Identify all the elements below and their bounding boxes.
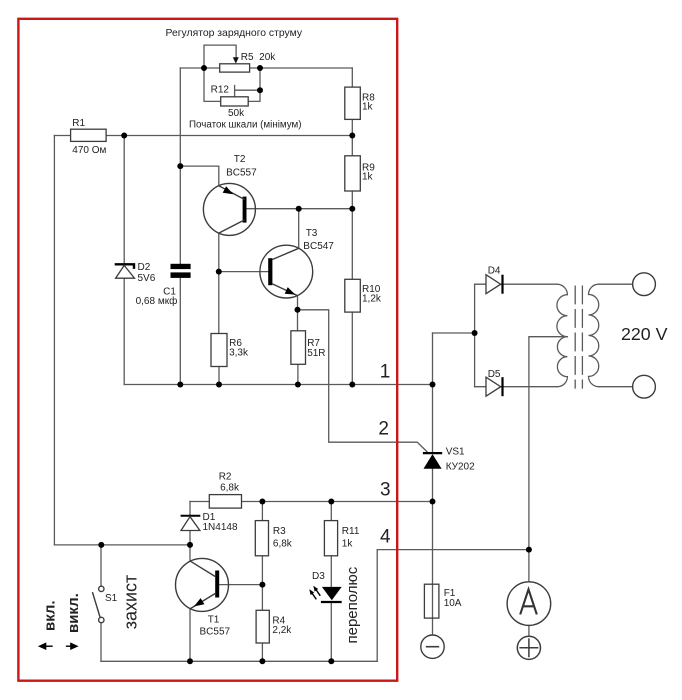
wire D4 D5 left vertical x=474.6 bbox=[474, 284, 476, 387]
wire R10 top lead bbox=[351, 209, 353, 280]
junction R6 to rail 1 bbox=[216, 382, 222, 388]
junction R11 to rail 3 bbox=[328, 499, 334, 505]
minus terminal bbox=[421, 635, 444, 658]
wire R12 right end up to rail bbox=[248, 68, 260, 101]
wire secondary bottom to terminal bbox=[599, 386, 633, 388]
wire S1 bottom lead bbox=[100, 623, 102, 662]
resistor R7 bbox=[291, 331, 306, 365]
junction R12 wiper node bbox=[257, 87, 263, 93]
resistor R10 bbox=[345, 279, 361, 312]
svg-text:50k: 50k bbox=[228, 108, 245, 119]
wire top rail y=68 bbox=[180, 67, 352, 69]
svg-text:51R: 51R bbox=[307, 348, 325, 359]
svg-text:BC557: BC557 bbox=[226, 167, 257, 178]
junction R3 to rail 3 bbox=[259, 499, 265, 505]
svg-text:вкл.: вкл. bbox=[41, 600, 58, 631]
plus terminal bbox=[517, 636, 540, 659]
svg-text:R2: R2 bbox=[219, 472, 232, 483]
svg-text:1k: 1k bbox=[362, 171, 374, 182]
svg-text:T1: T1 bbox=[208, 615, 220, 626]
junction rail 1 to VS1 line bbox=[430, 382, 436, 388]
wire node2 branch from T3 emitter bbox=[298, 310, 428, 452]
wire D2 branch vertical x=124.2 bbox=[123, 136, 125, 264]
wire ammeter to plus terminal bbox=[528, 625, 530, 636]
transistor T1 bbox=[176, 558, 229, 611]
wire T1 collector down to rail bbox=[189, 609, 191, 662]
resistor R1 bbox=[71, 129, 107, 141]
svg-text:D2: D2 bbox=[138, 262, 151, 273]
junction R9 R10 node bbox=[349, 206, 355, 212]
junction T2 collector T3 base bbox=[216, 269, 222, 275]
svg-text:1k: 1k bbox=[362, 102, 374, 113]
junction rail 3 to VS1 line bbox=[430, 499, 436, 505]
svg-text:3: 3 bbox=[380, 480, 391, 501]
wire T2 base to R9 node bbox=[247, 208, 353, 210]
svg-text:R11: R11 bbox=[342, 526, 360, 537]
svg-text:2,2k: 2,2k bbox=[272, 625, 292, 636]
wire D3 cathode to rail bbox=[330, 603, 332, 662]
diode D5 bbox=[486, 377, 503, 396]
junction C1 to rail 1 bbox=[177, 382, 183, 388]
junction R1 to D2 branch bbox=[121, 133, 127, 139]
wire x=204 vertical to R12 bbox=[204, 68, 221, 101]
diode D1 bbox=[181, 516, 201, 531]
wire T3 base from node bbox=[219, 271, 268, 273]
wire T2 collector down to R6 bbox=[218, 233, 220, 333]
svg-text:D5: D5 bbox=[488, 369, 501, 380]
wire D1 anode down to T1 bbox=[189, 531, 191, 562]
wire R7 bottom lead bbox=[297, 364, 299, 384]
arrow vkl left bbox=[38, 642, 53, 650]
wire left vertical x=54.4 bbox=[53, 136, 55, 545]
wire R11 top lead bbox=[330, 502, 332, 521]
svg-text:4: 4 bbox=[380, 527, 391, 548]
wire mid horizontal y=544.9 bbox=[54, 544, 190, 546]
wire T2 emitter branch bbox=[180, 166, 219, 186]
junction R7 to rail 1 bbox=[295, 382, 301, 388]
junction T1 base R3 R4 bbox=[259, 582, 265, 588]
wire R10 bottom lead bbox=[351, 312, 353, 384]
wire rail 1 y=384.5 bbox=[124, 384, 432, 386]
wire secondary top to terminal bbox=[599, 283, 633, 285]
junction R5 left node bbox=[201, 65, 207, 71]
capacitor C1 bbox=[171, 264, 191, 278]
diode D4 bbox=[486, 275, 503, 294]
resistor R6 bbox=[211, 334, 227, 367]
junction D4 D5 anodes bbox=[472, 330, 478, 336]
svg-text:470 Ом: 470 Ом bbox=[72, 145, 106, 156]
terminal circle 220V bottom bbox=[633, 375, 656, 398]
svg-text:1: 1 bbox=[380, 361, 391, 382]
junction T3 emitter node bbox=[295, 307, 301, 313]
junction D1 anode node bbox=[187, 542, 193, 548]
transformer core dashed lines bbox=[574, 286, 576, 388]
svg-text:2: 2 bbox=[378, 418, 389, 439]
svg-text:переполюс: переполюс bbox=[344, 566, 361, 643]
junction S1 branch bbox=[98, 542, 104, 548]
svg-text:6,8k: 6,8k bbox=[220, 482, 240, 493]
svg-text:D3: D3 bbox=[312, 571, 325, 582]
wire T3 collector up bbox=[298, 209, 300, 249]
svg-text:6,8k: 6,8k bbox=[273, 538, 293, 549]
junction rail 4 to ammeter line bbox=[526, 547, 532, 553]
junction C1 branch to T2 emitter bbox=[177, 163, 183, 169]
svg-text:VS1: VS1 bbox=[446, 446, 465, 457]
transistor T3 bbox=[260, 245, 313, 298]
wire T3 emitter down bbox=[297, 296, 299, 331]
resistor R3 bbox=[255, 521, 268, 556]
resistor R8 bbox=[345, 87, 361, 119]
svg-text:R5 20k: R5 20k bbox=[241, 52, 276, 63]
terminal circle 220V top bbox=[633, 273, 656, 296]
transformer secondary winding bbox=[589, 284, 599, 387]
transformer primary winding bbox=[557, 284, 568, 387]
svg-text:R3: R3 bbox=[273, 526, 286, 537]
junction R4 to bottom rail bbox=[259, 658, 265, 664]
wire R5 bypass loop bbox=[204, 45, 236, 68]
svg-text:R1: R1 bbox=[72, 118, 85, 129]
thyristor VS1 bbox=[423, 453, 442, 469]
wire D4 D5 junction horizontal bbox=[433, 332, 475, 334]
svg-text:T2: T2 bbox=[234, 154, 246, 165]
wire C1 bottom to rail1 bbox=[179, 278, 181, 385]
junction T1 collector to bottom rail bbox=[187, 658, 193, 664]
wire D4 horizontal y=284.2 bbox=[475, 283, 557, 285]
svg-text:викл.: викл. bbox=[65, 593, 82, 633]
wire R3 top lead bbox=[261, 502, 263, 521]
wire R8 top lead bbox=[351, 68, 353, 87]
fuse F1 bbox=[424, 584, 439, 618]
wire D2 anode down to rail1 bbox=[123, 278, 125, 384]
svg-text:1k: 1k bbox=[342, 538, 354, 549]
svg-text:BC557: BC557 bbox=[200, 626, 231, 637]
wire transformer center tap bbox=[529, 337, 568, 582]
svg-text:5V6: 5V6 bbox=[138, 273, 156, 284]
svg-text:КУ202: КУ202 bbox=[446, 461, 475, 472]
junction R10 to rail 1 bbox=[349, 382, 355, 388]
wire VS1 vertical upper bbox=[432, 333, 434, 452]
svg-text:R12: R12 bbox=[211, 85, 230, 96]
junction D3 to bottom rail bbox=[328, 658, 334, 664]
svg-text:10A: 10A bbox=[444, 598, 462, 609]
wire bottom rail y=661.3 bbox=[101, 660, 377, 662]
zener diode D2 bbox=[115, 264, 135, 278]
svg-text:T3: T3 bbox=[306, 228, 318, 239]
wire R9 bottom lead bbox=[351, 191, 353, 209]
wire R1 rail y=135.5 bbox=[54, 135, 352, 137]
wire D5 horizontal y=386.7 bbox=[475, 386, 558, 388]
svg-text:220 V: 220 V bbox=[621, 324, 668, 344]
transistor T2 bbox=[203, 183, 255, 235]
potentiometer R5 bbox=[220, 64, 250, 72]
wire R4 bottom lead bbox=[261, 643, 263, 661]
resistor R4 bbox=[256, 610, 269, 643]
resistor R11 bbox=[324, 521, 337, 556]
resistor R9 bbox=[345, 156, 361, 191]
wire T1 base to R3 R4 node bbox=[219, 584, 262, 586]
svg-text:Регулятор зарядного струму: Регулятор зарядного струму bbox=[166, 28, 303, 39]
junction T2 base T3 collector bbox=[296, 206, 302, 212]
wire D1 top lead bbox=[189, 502, 191, 516]
switch S1 bbox=[92, 586, 104, 623]
wire R11 bottom to D3 bbox=[330, 556, 332, 587]
ammeter A bbox=[507, 582, 551, 626]
svg-text:S1: S1 bbox=[105, 593, 118, 604]
svg-text:1N4148: 1N4148 bbox=[203, 522, 238, 533]
wire S1 top lead bbox=[100, 545, 102, 586]
wire C1 branch vertical x=180.3 bbox=[179, 68, 181, 264]
potentiometer R12 bbox=[221, 97, 249, 106]
wire VS1 anode down to fuse and minus terminal bbox=[432, 469, 434, 635]
arrow vykl right bbox=[66, 642, 79, 650]
wire rail 4 y=549.6 bbox=[377, 550, 529, 662]
wire R3 to R4 bbox=[261, 556, 263, 611]
junction R8 R9 node bbox=[349, 133, 355, 139]
svg-text:3,3k: 3,3k bbox=[229, 347, 249, 358]
junction R5 right node bbox=[257, 65, 263, 71]
wire R6 bottom lead bbox=[218, 367, 220, 385]
svg-text:D4: D4 bbox=[488, 265, 501, 276]
resistor R2 bbox=[209, 495, 241, 509]
wire rail 3 y=501.5 bbox=[190, 501, 433, 503]
potentiometer R5 wiper arrow bbox=[233, 57, 239, 63]
svg-text:захист: захист bbox=[121, 575, 141, 630]
wire R9 top lead bbox=[351, 136, 353, 156]
wire R12 wiper tap bbox=[235, 86, 260, 97]
wire R8 bottom lead bbox=[351, 119, 353, 135]
svg-text:Початок шкали (мінімум): Початок шкали (мінімум) bbox=[189, 120, 302, 131]
LED D3 bbox=[309, 586, 341, 602]
red border frame bbox=[18, 19, 397, 681]
svg-text:1,2k: 1,2k bbox=[362, 294, 382, 305]
svg-text:0,68 мкф: 0,68 мкф bbox=[136, 295, 178, 307]
svg-text:BC547: BC547 bbox=[303, 241, 334, 252]
